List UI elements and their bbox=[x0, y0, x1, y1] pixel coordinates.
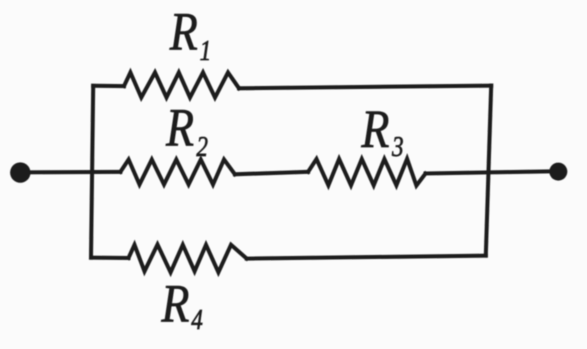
label R1 bbox=[169, 1, 211, 66]
resistor R1 bbox=[124, 73, 239, 98]
node: input terminal (left) bbox=[10, 162, 30, 182]
svg-text:R: R bbox=[360, 99, 389, 159]
wire: top branch, right segment bbox=[239, 86, 491, 89]
wire: right bus vertical (joins top, middle, bottom branches) bbox=[486, 86, 491, 256]
svg-text:R: R bbox=[160, 273, 189, 333]
resistor R2 bbox=[120, 160, 234, 185]
wire: bottom branch, left segment bbox=[91, 256, 129, 260]
svg-text:R: R bbox=[165, 97, 194, 157]
svg-text:3: 3 bbox=[391, 131, 403, 163]
svg-text:4: 4 bbox=[191, 304, 203, 336]
resistor R3 bbox=[308, 159, 425, 186]
wire: bottom branch, right segment bbox=[247, 256, 486, 259]
label R3 bbox=[360, 99, 403, 163]
wire: top branch, left segment bbox=[93, 84, 124, 88]
wire: input lead from left terminal to R2 bbox=[22, 170, 120, 175]
label R4 bbox=[160, 273, 202, 336]
wire: middle branch link between R2 and R3 bbox=[235, 172, 308, 175]
wire: left bus vertical (joins top, middle, bottom branches) bbox=[91, 86, 93, 258]
wire: output lead from R3 to right terminal bbox=[426, 171, 557, 173]
svg-text:1: 1 bbox=[200, 35, 212, 67]
svg-text:R: R bbox=[169, 1, 198, 61]
resistor R4 bbox=[129, 245, 247, 273]
label R2 bbox=[165, 97, 208, 163]
node: output terminal (right) bbox=[549, 163, 567, 181]
svg-text:2: 2 bbox=[196, 131, 208, 163]
